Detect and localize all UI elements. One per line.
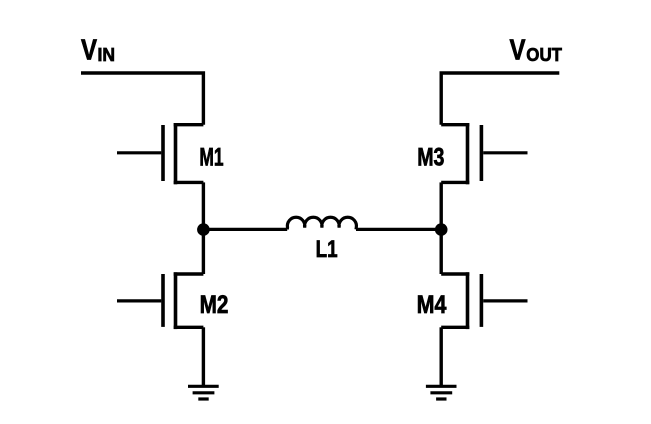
node A junction dot: [197, 223, 210, 236]
wire M3 source to node B: [440, 182, 443, 229]
svg-text:L1: L1: [316, 236, 338, 263]
transistor M3: [441, 123, 527, 184]
svg-text:V: V: [510, 35, 527, 67]
wire VOUT to M3 drain: [441, 73, 559, 125]
wire M2 source to ground: [202, 327, 205, 386]
wire node B to M4 drain: [440, 230, 443, 274]
svg-text:OUT: OUT: [526, 44, 562, 65]
svg-text:M1: M1: [199, 143, 223, 171]
node B junction dot: [435, 223, 448, 236]
node VIN label: [81, 35, 115, 67]
svg-text:M2: M2: [200, 291, 229, 319]
svg-text:V: V: [81, 35, 98, 67]
wire L1 to node B: [356, 228, 441, 231]
wire node A to M2 drain: [202, 230, 205, 274]
wire VIN to M1 drain: [81, 73, 203, 125]
wire M4 source to ground: [440, 327, 443, 386]
node VOUT label: [510, 35, 563, 67]
svg-text:IN: IN: [98, 44, 116, 65]
ground (left): [188, 386, 219, 399]
svg-text:M4: M4: [417, 291, 447, 319]
ground (right): [426, 386, 457, 399]
transistor M2: [117, 272, 203, 329]
svg-text:M3: M3: [417, 143, 444, 171]
wire M1 source to node A: [202, 182, 205, 229]
transistor M4: [441, 272, 527, 329]
transistor M1: [117, 123, 203, 184]
inductor L1: [287, 217, 356, 229]
wire node A to L1: [203, 228, 287, 231]
